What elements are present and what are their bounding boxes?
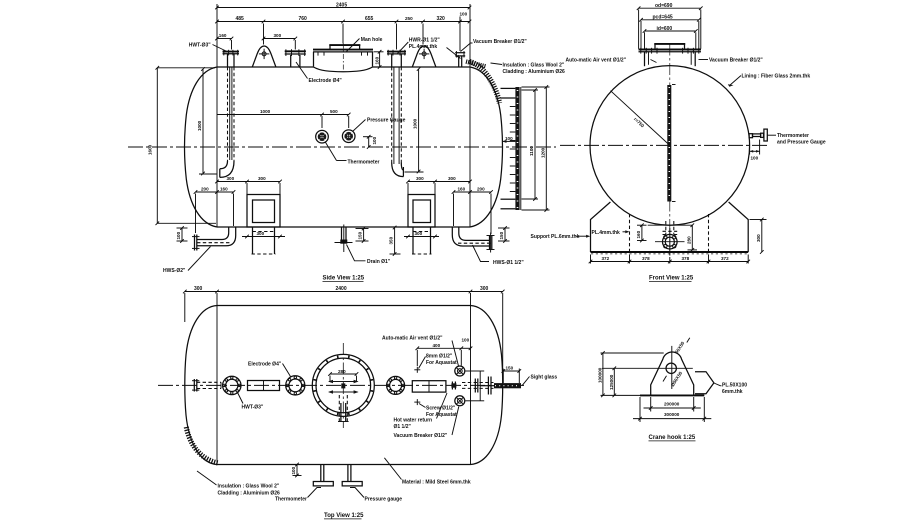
right tangent seam line with extension to dims [469,4,471,227]
thermometer label front [767,134,776,136]
pressure gauge bottom fitting [347,465,349,482]
panel dim 100 [502,140,515,142]
overall dim 2405 [217,7,470,9]
chain dim line [217,21,470,23]
svg-text:HWT-Ø3": HWT-Ø3" [242,405,264,411]
saddle right hidden lines [413,231,431,233]
drain flange block [340,240,347,244]
svg-text:Vacuum Breaker Ø1/2": Vacuum Breaker Ø1/2" [473,39,527,45]
vacuum breaker tap on CL [451,382,453,390]
svg-text:300: 300 [480,286,489,292]
svg-text:300: 300 [227,176,235,181]
manhole bolts under flange [318,52,368,56]
manhole bolt ring dashes [313,356,373,416]
insulation hatch band on right head [470,62,500,104]
svg-text:PL.50X100: PL.50X100 [722,383,747,389]
svg-text:100: 100 [751,156,759,161]
svg-text:150: 150 [499,231,504,239]
sight glass bar [494,383,521,388]
manhole cap front [655,44,685,49]
manhole flange front [639,49,702,51]
HWS left label [188,247,211,271]
hot water return flange circle [387,376,405,394]
vacuum breaker stub [458,56,460,67]
chain row y192 left [196,191,234,193]
panel dim 1100 [534,90,536,199]
HWS left elbow flange [194,235,196,251]
HWT side fitting pipe hidden [197,381,221,383]
svg-text:pcd=645: pcd=645 [653,15,673,21]
drain crosshair front [655,241,685,243]
manhole centerline [342,44,344,72]
svg-text:100: 100 [505,136,513,141]
svg-text:6mm.thk: 6mm.thk [722,389,743,395]
lifting lug 1 [252,46,276,67]
svg-text:160: 160 [220,187,228,192]
electrode body rect [248,381,280,391]
left tangent seam line with extension to dims [216,4,218,227]
HWR dip pipe hidden [391,67,393,163]
svg-text:300: 300 [274,33,282,38]
manhole lower hidden pipe [338,395,340,422]
rear flange top bolt lines [501,87,516,89]
svg-text:Side View 1:25: Side View 1:25 [323,276,365,282]
svg-text:485: 485 [236,16,245,22]
top view left head [185,306,217,465]
manhole neck weld dip [314,67,373,72]
rear head flange panel outer line [520,87,522,210]
air vent ext lines [416,350,418,366]
saddle right outer [408,195,435,228]
saddle left base sides below tank [252,227,254,254]
right dished head [470,67,503,227]
svg-text:150: 150 [506,366,514,371]
rear head flange panel speckles [517,90,519,208]
support right outline [729,202,749,252]
svg-text:160: 160 [375,56,380,64]
svg-text:od=690: od=690 [655,3,673,9]
chain extension lines [264,17,461,52]
manhole center boss [341,383,345,388]
svg-text:1000: 1000 [197,120,202,131]
HWR dip pipe elbow [392,163,404,177]
svg-text:150: 150 [358,231,363,239]
dim 150 drain [363,229,365,242]
dim 100 gauge offset [368,137,370,147]
svg-text:300000: 300000 [664,412,680,417]
crane dim 100000 [602,353,604,395]
front centerline horizontal [560,144,768,146]
top view left tangent line [216,293,218,465]
HWT-3in pipe stub [227,54,229,67]
svg-text:1600: 1600 [148,144,153,155]
svg-text:Top View 1:25: Top View 1:25 [324,513,364,519]
svg-text:8mm Ø1/2": 8mm Ø1/2" [426,354,453,360]
dim 400 air vent [417,347,461,349]
panel dim 1200 [545,87,547,210]
dim 100 bottom fittings [296,465,298,476]
svg-text:250: 250 [405,16,413,21]
bottom dim row front [591,261,749,263]
hot water return pipe rect [412,381,446,392]
thermometer boss front [749,134,752,138]
aquastat screw cross upper [414,369,420,371]
svg-text:Front View 1:25: Front View 1:25 [649,276,694,282]
dim 100 left elbow [181,228,183,241]
saddle dim 300 below left [242,236,285,238]
svg-text:372: 372 [602,256,610,261]
svg-text:378: 378 [642,256,650,261]
manhole circle top view [312,354,374,416]
tank shell circle [590,66,750,226]
svg-text:Cladding : Aluminium Ø26: Cladding : Aluminium Ø26 [503,69,566,75]
manhole dim extension lines [639,10,701,49]
manhole cap [330,45,360,49]
svg-text:300: 300 [257,231,265,236]
dip tube end ticks [672,84,676,86]
svg-text:100: 100 [462,337,470,342]
svg-text:160: 160 [458,187,466,192]
aquastat boss lower [455,396,465,406]
sight glass flange pair 2 [487,377,489,395]
svg-text:300: 300 [194,286,203,292]
svg-text:100: 100 [291,466,296,474]
svg-text:Electrode Ø4": Electrode Ø4" [248,362,282,368]
HWT flange circle top view [223,376,241,394]
rear head flange panel (speckled bar) [515,87,519,210]
HWS left elbow pipe [197,239,222,241]
crane side plate pentagon [695,372,714,394]
drain crosshair [343,225,345,253]
svg-text:Auto-matic Air vent Ø1/2": Auto-matic Air vent Ø1/2" [382,336,443,342]
crane hook lug outline [651,352,694,395]
rear flange bottom bolt lines [501,198,516,200]
svg-text:Sight glass: Sight glass [531,375,558,381]
HWT dip pipe elbow [220,161,228,169]
sight glass flange pair 1 [474,379,476,393]
svg-text:1100: 1100 [529,146,534,156]
svg-text:300: 300 [756,234,761,242]
dim 1000 left dip pipe [202,69,204,174]
tank shell top line left segment [217,66,314,68]
support left outline [591,202,611,252]
crane hook hole [666,363,676,373]
thermometer label [325,142,337,161]
rear flange bolt ticks [510,107,516,192]
HWS right elbow pipe [452,227,489,246]
dim 100 thermometer [749,147,751,155]
top view shell bottom edge [217,464,471,466]
saddle right inner web [413,200,431,223]
aquastat bracket [479,371,481,401]
insulation hatch band dense start blob [466,62,486,67]
svg-text:125000: 125000 [609,374,614,390]
svg-text:655: 655 [365,16,374,22]
top view left extreme extension [184,293,186,322]
dim 1600 overall height [156,68,158,224]
electrode flange [285,50,306,52]
dim 100 air vent [461,347,470,349]
dip tube speckled bar [667,85,671,202]
dim 160 top left [217,38,232,40]
top view right extreme extension [502,293,504,368]
saddle ext lines [247,183,435,194]
top view right head [471,306,503,465]
top dim row [185,291,503,293]
svg-text:Thermometer: Thermometer [275,497,307,503]
svg-text:500: 500 [330,109,338,114]
drain stub [341,227,343,240]
support saddle front baseline [591,251,749,253]
chain row y192 right [454,191,492,193]
svg-text:100: 100 [460,12,468,17]
crane baseline extension [601,394,641,396]
radius line r=750 [611,91,670,146]
svg-text:Ø1 1/2": Ø1 1/2" [394,424,412,430]
manhole neck front [644,52,646,66]
saddle dim row y181 right [408,181,470,183]
svg-text:100: 100 [372,136,377,144]
svg-text:2405: 2405 [336,2,347,8]
svg-text:100000: 100000 [598,367,603,383]
svg-text:Vacuum Breaker Ø1/2": Vacuum Breaker Ø1/2" [709,58,763,64]
crane bottom dim 200000 [650,397,652,412]
svg-text:Cladding : Aluminium Ø26: Cladding : Aluminium Ø26 [218,491,281,497]
manhole neck [313,52,315,67]
svg-text:300: 300 [258,176,266,181]
tank shell top line right segment [373,66,471,68]
drain flange front circle [663,234,678,249]
svg-text:760: 760 [299,16,308,22]
svg-text:300: 300 [415,231,423,236]
svg-text:PL.4mm.thk: PL.4mm.thk [592,230,621,236]
svg-text:200: 200 [201,187,209,192]
top view horizontal centerline [158,384,524,386]
saddle right base sides below tank [412,227,414,254]
svg-text:Vacuum Breaker Ø1/2": Vacuum Breaker Ø1/2" [394,433,448,439]
svg-text:372: 372 [721,256,729,261]
thermometer bottom fitting [320,465,322,482]
svg-text:200: 200 [477,187,485,192]
dim 350 saddle base [394,228,396,255]
manhole spinner arrows [329,381,358,383]
saddle dim row y181 left [217,181,280,183]
aquastat screw cross lower [414,401,420,403]
HWR flange [387,51,406,53]
dim od=690 [639,7,701,9]
svg-text:350: 350 [388,236,393,244]
svg-text:Crane hook 1:25: Crane hook 1:25 [649,435,696,441]
svg-text:1200: 1200 [540,147,545,158]
svg-text:280: 280 [686,236,691,244]
svg-text:HWS-Ø1 1/2": HWS-Ø1 1/2" [493,260,524,266]
svg-text:Hot water return: Hot water return [394,418,433,424]
svg-text:Auto-matic Air vent Ø1/2": Auto-matic Air vent Ø1/2" [566,58,627,64]
thermometer gauge circle [316,130,329,143]
svg-text:Man hole: Man hole [361,37,383,43]
svg-text:HWS-Ø2": HWS-Ø2" [163,268,186,274]
tank horizontal centerline [128,146,556,148]
svg-text:300: 300 [416,176,424,181]
saddle left inner web [253,200,275,223]
svg-text:100: 100 [176,231,181,239]
svg-text:160: 160 [636,230,641,238]
dim 1000 horizontal (pipe to thermometer) [217,114,322,116]
svg-text:200000: 200000 [664,401,680,406]
svg-text:1000: 1000 [260,109,271,114]
svg-text:1000: 1000 [413,118,418,129]
svg-text:HWT-Ø3": HWT-Ø3" [189,43,211,49]
svg-text:280: 280 [338,369,346,374]
saddle dim 300 below right [404,236,439,238]
svg-text:300: 300 [448,176,456,181]
HWT flange bolts [224,50,238,56]
svg-text:HWR-Ø1 1/2": HWR-Ø1 1/2" [409,38,441,44]
dim id=600 [645,30,696,32]
svg-text:Insulation : Glass Wool 2": Insulation : Glass Wool 2" [503,63,565,69]
manhole flange [313,49,373,51]
svg-text:160: 160 [219,33,227,38]
top view shell top edge [217,305,471,307]
dim 150 right elbow [504,228,506,241]
svg-text:320: 320 [437,16,446,22]
insulation hatch band lower-left head [186,427,219,463]
HWT label top view [238,393,244,404]
HWT flange [223,51,240,53]
svg-text:400: 400 [433,343,441,348]
top view right tangent line [470,293,472,465]
svg-text:PL.4mm.thk: PL.4mm.thk [409,44,438,50]
svg-text:Drain Ø1": Drain Ø1" [367,259,391,265]
crane bottom dim 300000 [639,397,641,422]
svg-text:378: 378 [682,256,690,261]
svg-text:Electrode Ø4": Electrode Ø4" [309,78,343,84]
svg-text:and Pressure Gauge: and Pressure Gauge [777,139,826,145]
svg-text:Thermometer: Thermometer [777,133,809,139]
svg-text:Support PL.6mm.thk: Support PL.6mm.thk [531,234,580,240]
electrode pipe stub [290,55,292,67]
dim 300 top (lug to electrode) [264,38,296,40]
svg-text:Thermometer: Thermometer [348,160,380,166]
drain label [347,245,366,261]
crane plate label [714,383,721,386]
dim 300 support height [761,220,763,253]
svg-text:Material : Mild Steel 6mm.thk: Material : Mild Steel 6mm.thk [402,480,471,486]
dim pcd=645 [641,19,699,21]
HWS right flange [489,236,491,250]
left dished head [185,67,218,227]
svg-text:id=600: id=600 [657,26,673,32]
HWR pipe stub [391,54,393,67]
pressure gauge label [353,120,366,132]
manhole flange bolt ticks [641,48,699,54]
support PL arrow [576,235,589,237]
svg-text:Lining : Fiber Glass 2mm.thk: Lining : Fiber Glass 2mm.thk [742,74,811,80]
manhole vertical centerline [342,343,344,428]
saddle left hidden lines [253,231,275,233]
support hidden verticals [629,214,631,252]
dim 1000 right dip pipe [418,69,420,172]
drain pipe hidden front [665,221,667,235]
svg-text:Pressure Gauge: Pressure Gauge [367,118,406,124]
crane dim 125000 [613,368,615,395]
HWT dip pipe hidden [227,67,229,161]
aquastat boss upper [455,366,465,376]
lifting lug 2 [412,46,436,67]
dim 160 drain front [648,224,693,226]
tank shell bottom line [217,226,470,228]
dim 280 drain front [691,225,693,250]
manhole 160 dim [379,52,381,67]
svg-text:For Aquastat: For Aquastat [426,360,457,366]
svg-text:Pressure gauge: Pressure gauge [365,497,403,503]
crane hook diagonal dim line [663,376,667,382]
pressure gauge circle [342,130,355,143]
electrode flange circle top view [286,376,305,395]
svg-text:Insulation : Glass Wool 2": Insulation : Glass Wool 2" [218,484,280,490]
crane hook baseline [640,394,704,396]
HWS right label [473,245,490,262]
sight glass hidden pipe [462,382,494,384]
vacuum breaker label leader [461,43,473,52]
dim 500 horizontal (thermometer to gauge) [322,114,349,116]
lug 1 hole [262,52,266,56]
HWT side fitting flange [193,379,195,392]
front centerline vertical [669,44,671,258]
crane hook crosshair [671,346,673,389]
dim 150 sight glass [502,369,504,384]
saddle left outer [247,195,280,228]
electrode label [296,62,308,79]
svg-text:2400: 2400 [336,286,347,292]
man hole label [347,39,360,52]
manhole 280 dim [330,373,357,375]
